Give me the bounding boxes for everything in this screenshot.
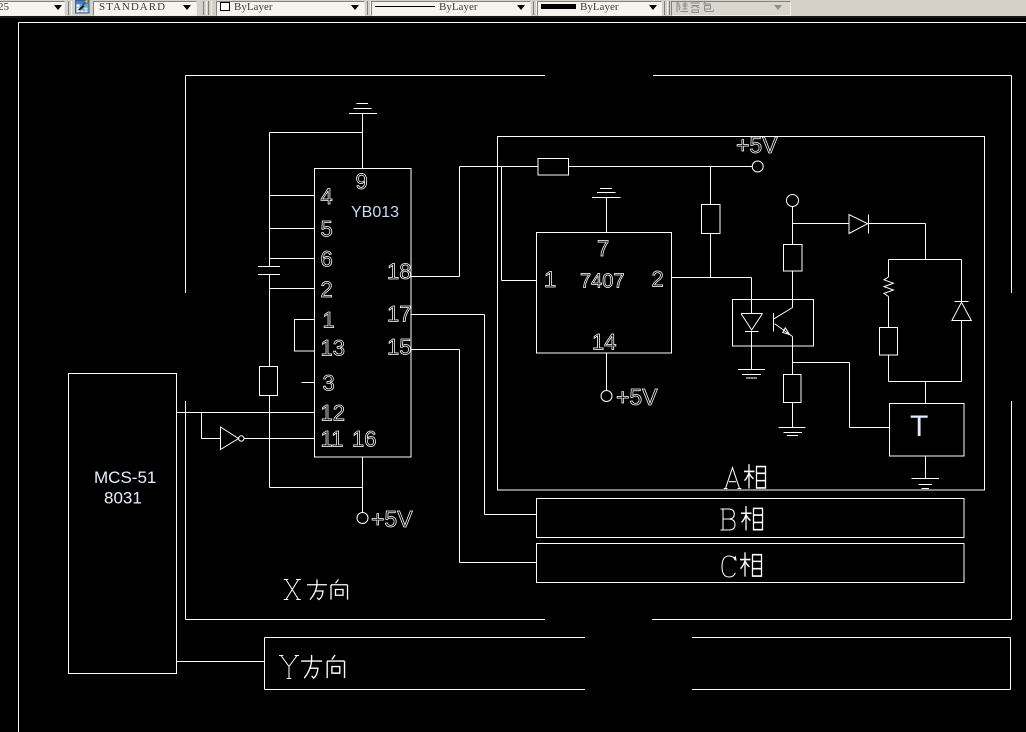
- svg-text:4: 4: [321, 184, 333, 209]
- svg-text:15: 15: [387, 335, 411, 360]
- svg-text:+5V: +5V: [371, 506, 413, 532]
- svg-text:14: 14: [592, 330, 616, 355]
- svg-text:16: 16: [352, 427, 376, 452]
- svg-text:+5V: +5V: [616, 384, 658, 410]
- svg-text:1: 1: [323, 308, 335, 333]
- svg-text:7407: 7407: [580, 271, 625, 293]
- svg-text:13: 13: [321, 336, 345, 361]
- svg-text:11: 11: [321, 427, 344, 452]
- svg-text:+5V: +5V: [736, 132, 778, 158]
- svg-text:7: 7: [597, 236, 609, 261]
- svg-text:T: T: [910, 410, 928, 443]
- svg-text:2: 2: [321, 277, 333, 302]
- svg-text:17: 17: [387, 302, 411, 327]
- svg-text:5: 5: [321, 217, 333, 242]
- svg-text:9: 9: [356, 169, 368, 194]
- svg-text:12: 12: [321, 401, 345, 426]
- svg-text:6: 6: [321, 247, 333, 272]
- svg-text:YB013: YB013: [351, 204, 399, 221]
- svg-text:8031: 8031: [104, 489, 142, 508]
- svg-text:1: 1: [544, 267, 556, 292]
- svg-text:3: 3: [323, 371, 335, 396]
- svg-text:18: 18: [387, 259, 411, 284]
- svg-text:MCS-51: MCS-51: [94, 468, 156, 487]
- svg-text:2: 2: [652, 267, 664, 292]
